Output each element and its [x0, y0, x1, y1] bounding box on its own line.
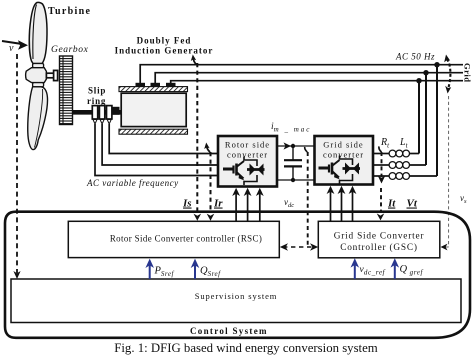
GSC control arrows: [327, 186, 357, 221]
control system boundary: [5, 212, 470, 338]
grid junction node 1: [434, 62, 439, 67]
svg-text:Control System: Control System: [190, 326, 268, 336]
svg-text:converter: converter: [227, 150, 268, 160]
DC link node bottom: [291, 178, 295, 182]
Q_gref reference arrow: [391, 258, 424, 279]
svg-text:Rotor Side Converter controlle: Rotor Side Converter controller (RSC): [110, 234, 262, 244]
shaft coupling block: [113, 107, 120, 115]
svg-text:Slip: Slip: [88, 86, 106, 96]
svg-text:Doubly Fed: Doubly Fed: [137, 36, 192, 46]
stator phase wire 1: [140, 65, 463, 83]
rotor wire 1: [95, 124, 218, 176]
wind speed arrow v: [2, 40, 28, 54]
GSC converter U2: [315, 136, 374, 185]
svg-text:AC 50 Hz: AC 50 Hz: [395, 52, 435, 62]
svg-text:Ir: Ir: [213, 198, 223, 210]
svg-text:Supervision system: Supervision system: [195, 291, 278, 301]
turbine blades and hub: [26, 2, 58, 149]
svg-text:v: v: [9, 43, 14, 54]
grid drop wire 1: [436, 65, 438, 176]
vdc measurement dashed wire: [305, 147, 308, 247]
shaft gearbox to generator: [73, 110, 122, 115]
svg-text:AC variable frequency: AC variable frequency: [86, 178, 179, 188]
rotor wire 2: [102, 124, 218, 165]
gearbox: [60, 56, 73, 125]
svg-text:ring: ring: [87, 96, 106, 106]
supervision system box: [11, 279, 461, 323]
svg-text:Induction Generator: Induction Generator: [115, 46, 214, 56]
RSC converter U1: [218, 136, 277, 187]
DC link bottom rail: [277, 179, 314, 181]
vs measurement dashed arrow: [441, 55, 452, 251]
svg-text:Turbine: Turbine: [48, 6, 91, 17]
slip ring: [92, 106, 112, 124]
svg-text:Grid Side Converter: Grid Side Converter: [334, 232, 425, 242]
GSC output wire 3 with inductor Lt3: [373, 173, 437, 180]
grid drop wire 2: [425, 73, 427, 165]
GSC output wire 1 with inductor Lt1: [373, 150, 419, 157]
svg-text:It: It: [387, 198, 396, 210]
svg-text:Rotor side: Rotor side: [225, 140, 270, 150]
grid junction node 2: [423, 70, 428, 75]
stator phase wire 2: [155, 73, 463, 83]
Is measurement dashed wire: [191, 55, 201, 221]
GSC IGBT symbol: [319, 156, 361, 185]
RSC IGBT symbol: [223, 157, 265, 186]
svg-text:Fig. 1: DFIG based wind energy: Fig. 1: DFIG based wind energy conversio…: [114, 341, 378, 355]
v_dc_ref reference arrow: [351, 258, 386, 279]
stator phase wire 3: [171, 81, 463, 83]
wind speed measurement dashed wire: [13, 54, 20, 279]
capacitor C: [284, 146, 302, 180]
RSC-GSC coordination dashed arrow: [280, 243, 318, 251]
svg-text:Grid: Grid: [463, 63, 473, 82]
DC link top rail: [277, 145, 314, 147]
Ir measurement dashed wire: [204, 143, 214, 221]
generator DFIG body: [119, 83, 188, 134]
RSC control arrows: [232, 188, 264, 221]
grid drop wire 3: [418, 81, 420, 154]
DC link current arrow i_m: [284, 142, 292, 149]
grid junction node 3: [416, 78, 421, 83]
svg-text:Grid side: Grid side: [323, 140, 363, 150]
svg-text:Vt: Vt: [407, 198, 418, 210]
svg-text:converter: converter: [323, 150, 364, 160]
rotor wire 3: [109, 124, 218, 154]
svg-text:Gearbox: Gearbox: [51, 45, 89, 55]
RSC controller: [68, 221, 279, 257]
GSC controller: [318, 221, 440, 257]
It measurement dashed wire: [377, 146, 386, 220]
svg-text:Controller (GSC): Controller (GSC): [340, 242, 418, 253]
P_Sref reference arrow: [145, 259, 174, 279]
svg-text:Is: Is: [182, 198, 192, 210]
DC link node top: [291, 144, 295, 148]
Q_Sref reference arrow: [191, 259, 221, 279]
GSC output wire 2 with inductor Lt2: [373, 162, 426, 169]
svg-text:vdc_ref: vdc_ref: [360, 265, 386, 277]
